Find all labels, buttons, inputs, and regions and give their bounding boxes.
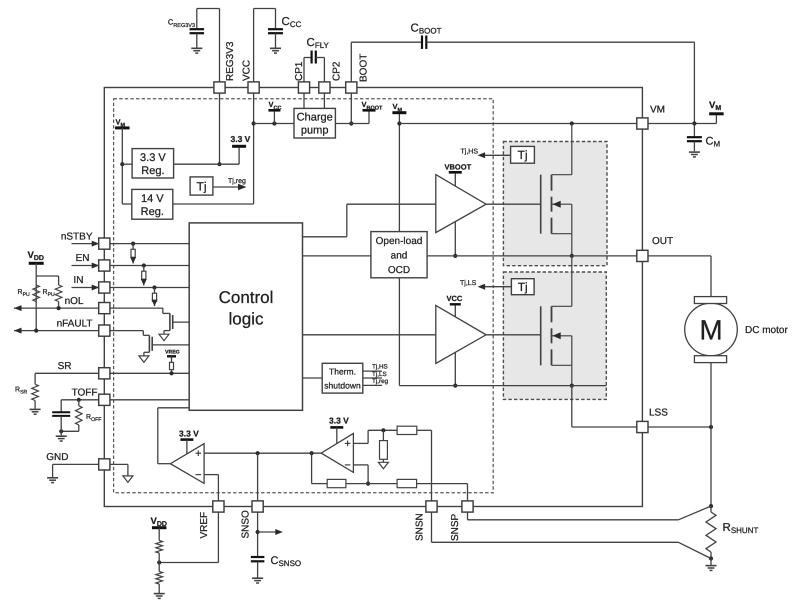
svg-text:Reg.: Reg. [141, 206, 164, 218]
svg-text:IN: IN [74, 275, 84, 286]
svg-text:LSS: LSS [649, 408, 668, 419]
svg-text:VCC: VCC [242, 60, 253, 81]
svg-text:BOOT: BOOT [359, 54, 370, 82]
svg-text:and: and [391, 251, 408, 262]
svg-text:Tj,reg: Tj,reg [228, 177, 246, 185]
svg-text:SNSN: SNSN [415, 513, 426, 541]
svg-text:Tj,LS: Tj,LS [460, 279, 477, 287]
svg-text:VM: VM [650, 105, 665, 116]
svg-text:3.3 V: 3.3 V [231, 134, 251, 144]
svg-text:M: M [699, 315, 722, 346]
svg-text:pump: pump [301, 125, 329, 137]
svg-text:3.3 V: 3.3 V [140, 152, 166, 164]
svg-text:DC motor: DC motor [745, 325, 788, 336]
svg-text:Therm.: Therm. [329, 367, 356, 377]
svg-text:CP1: CP1 [294, 61, 305, 81]
svg-text:Tj,reg: Tj,reg [372, 378, 389, 385]
svg-text:Tj: Tj [518, 280, 528, 294]
svg-text:Tj,LS: Tj,LS [372, 371, 387, 378]
svg-text:Tj: Tj [197, 180, 207, 194]
svg-text:VBOOT: VBOOT [445, 163, 472, 172]
svg-text:shutdown: shutdown [324, 381, 361, 391]
svg-text:Reg.: Reg. [141, 165, 164, 177]
svg-text:EN: EN [76, 253, 90, 264]
svg-text:nOL: nOL [65, 296, 84, 307]
svg-text:Tj,HS: Tj,HS [372, 364, 388, 371]
svg-text:Charge: Charge [297, 112, 333, 124]
svg-text:VREF: VREF [199, 512, 210, 539]
svg-text:OCD: OCD [388, 265, 410, 276]
svg-text:Tj: Tj [518, 148, 528, 162]
svg-text:nSTBY: nSTBY [61, 232, 93, 243]
svg-text:CP2: CP2 [332, 61, 343, 81]
svg-text:3.3 V: 3.3 V [179, 429, 199, 439]
svg-text:VCC: VCC [447, 294, 463, 303]
svg-text:OUT: OUT [652, 236, 673, 247]
svg-text:14 V: 14 V [141, 193, 164, 205]
svg-text:TOFF: TOFF [72, 388, 98, 399]
svg-text:Control: Control [219, 288, 274, 307]
svg-text:SR: SR [58, 361, 72, 372]
svg-text:REG3V3: REG3V3 [225, 41, 236, 81]
svg-text:SNSO: SNSO [241, 510, 252, 539]
svg-text:Open-load: Open-load [376, 236, 423, 247]
svg-text:nFAULT: nFAULT [57, 319, 93, 330]
svg-text:VREG: VREG [165, 350, 180, 356]
svg-text:GND: GND [46, 452, 68, 463]
svg-text:SNSP: SNSP [450, 513, 461, 541]
svg-text:3.3 V: 3.3 V [329, 416, 349, 426]
svg-text:Tj,HS: Tj,HS [461, 148, 479, 156]
svg-text:logic: logic [229, 310, 264, 329]
